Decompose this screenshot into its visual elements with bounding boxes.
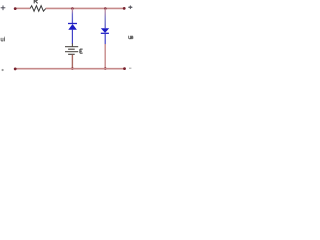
label ue (output voltage): [129, 36, 133, 39]
node junction top of diode D2 branch: [104, 7, 107, 10]
D1 bottom lead: [71, 30, 73, 44]
battery lead top: [71, 43, 73, 46]
wire top rail left segment: [15, 7, 30, 9]
wire D2 to bottom rail: [104, 44, 106, 69]
terminal dot top-left: [14, 7, 17, 10]
wire red stub junction to diode D1: [71, 8, 73, 23]
battery short plate 2: [68, 53, 75, 55]
minus terminal mark bottom-right: [129, 67, 131, 69]
diode D1 (points up, cathode at top): [68, 24, 77, 44]
D1 triangle: [68, 24, 77, 30]
wire red stub junction to diode D2: [104, 8, 106, 28]
background: [0, 0, 140, 79]
diode D2 (points down, cathode at bottom): [101, 28, 109, 44]
D2 cathode bar: [101, 32, 109, 34]
battery long plate 2: [65, 51, 78, 53]
label R: [34, 0, 37, 3]
minus terminal mark bottom-left: [1, 69, 3, 71]
label E: [80, 49, 83, 53]
wire top rail right segment: [46, 7, 125, 9]
plus terminal mark top-right: [129, 6, 132, 9]
wire bottom rail: [15, 68, 124, 70]
label ui (input voltage): [1, 37, 4, 41]
battery long plate 1: [65, 46, 78, 48]
node junction bottom of D2 branch: [104, 67, 107, 70]
terminal dot bottom-right: [123, 67, 126, 70]
D2 triangle: [101, 28, 109, 33]
terminal dot bottom-left: [14, 68, 17, 71]
resistor R: [30, 6, 46, 12]
battery E: [65, 43, 78, 54]
D1 cathode bar: [68, 23, 77, 25]
node junction top of diode D1 branch: [71, 7, 74, 10]
terminal dot top-right: [123, 7, 126, 10]
plus terminal mark top-left: [1, 6, 5, 10]
wire battery to bottom rail: [71, 55, 73, 69]
battery short plate 1: [68, 48, 75, 50]
node junction bottom of D1 branch: [71, 67, 74, 70]
D2 bottom lead: [104, 33, 106, 44]
